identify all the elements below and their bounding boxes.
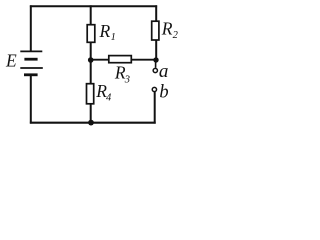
svg-text:R: R [161,19,173,39]
wire R3 right lead [131,59,156,61]
label R2 [161,19,179,42]
junction dot (bottom node) [88,120,94,126]
wire left lower [30,75,32,124]
wire top [30,5,157,7]
svg-text:a: a [159,61,169,82]
label R4 [95,81,112,104]
wire right upper [155,5,157,21]
battery E [20,51,43,74]
resistor R1 [87,25,95,43]
resistor R2 [152,21,159,40]
wire bottom [30,122,156,124]
label R1 [99,21,116,43]
svg-text:2: 2 [173,30,179,41]
wire middle branch upper [90,5,92,24]
wire R3 left lead [91,59,109,61]
wire right middle [155,40,157,60]
resistor R4 [87,84,94,104]
junction dot (R1/R3/R4 node) [88,57,94,63]
svg-text:3: 3 [124,74,130,85]
svg-text:4: 4 [106,93,112,104]
terminal b [152,87,156,91]
wire middle branch lower [90,60,92,84]
resistor R3 [109,56,132,63]
svg-text:1: 1 [111,32,116,43]
wire middle branch mid [90,42,92,61]
wire stub below terminal b [154,92,156,124]
wire stub to terminal a [155,60,157,68]
terminal a [153,68,157,72]
svg-text:E: E [5,50,17,70]
svg-text:b: b [159,82,168,102]
svg-text:R: R [99,21,111,41]
junction dot (R2/R3/a node) [153,57,158,62]
label R3 [114,62,130,85]
wire left upper [30,5,32,51]
wire middle branch bottom [90,104,92,123]
